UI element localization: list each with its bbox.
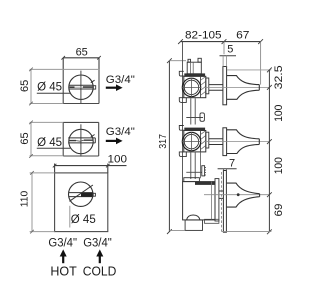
svg-text:G3/4": G3/4" xyxy=(106,126,135,138)
svg-text:G3/4": G3/4" xyxy=(106,74,135,86)
inlet label G3/4 (hot) xyxy=(48,238,77,250)
handle H2 (horn) xyxy=(204,130,270,154)
pipe between B2-B3 xyxy=(186,152,206,179)
svg-text:100: 100 xyxy=(108,154,128,166)
label Ø45 (unit1) with leader xyxy=(37,82,71,94)
svg-text:G3/4": G3/4" xyxy=(83,238,112,250)
svg-text:67: 67 xyxy=(236,30,249,42)
back rail xyxy=(182,42,184,182)
label Ø45 (unit3) with leader xyxy=(70,206,96,228)
handle H1 (horn) xyxy=(87,76,269,100)
label Ø45 (unit2) with leader xyxy=(37,137,71,149)
svg-text:HOT: HOT xyxy=(50,263,76,278)
valve body B2 xyxy=(179,126,223,157)
pipe between B1-B2 xyxy=(186,98,204,124)
svg-text:G3/4": G3/4" xyxy=(48,238,77,250)
dim 65 left (unit1 height) xyxy=(19,68,63,106)
svg-text:Ø 45: Ø 45 xyxy=(37,82,62,94)
svg-text:69: 69 xyxy=(273,204,285,217)
wall plate (unit 2) xyxy=(223,128,227,156)
dim 82-105 / 67 top xyxy=(178,30,263,85)
svg-text:82-105: 82-105 xyxy=(185,30,222,42)
svg-text:Ø 45: Ø 45 xyxy=(71,214,96,226)
svg-text:Ø 45: Ø 45 xyxy=(37,137,62,149)
svg-text:100: 100 xyxy=(273,157,285,174)
svg-text:317: 317 xyxy=(157,134,169,149)
dim 5 (plate thickness) xyxy=(220,44,237,56)
svg-text:100: 100 xyxy=(273,105,285,122)
dim chain right (32.5/100/100/69) xyxy=(222,65,286,234)
svg-text:110: 110 xyxy=(19,191,31,208)
wall plate (unit 3) xyxy=(222,171,227,233)
knob K1 circle xyxy=(69,71,96,104)
inlet label G3/4 (cold) xyxy=(83,238,112,250)
valve body B1 xyxy=(179,58,223,102)
arrow up (hot inlet) xyxy=(60,249,67,263)
svg-text:5: 5 xyxy=(227,44,233,56)
outlet label G3/4 (unit1) xyxy=(106,74,135,91)
svg-text:65: 65 xyxy=(19,132,31,144)
dim 7 (bottom plate) xyxy=(218,158,237,171)
thermostat body B3 xyxy=(169,178,223,231)
knob K3 circle (thermostat) xyxy=(69,182,96,206)
svg-text:COLD: COLD xyxy=(83,263,117,278)
plate square P2 (65x65) xyxy=(63,122,98,156)
arrow up (cold inlet) xyxy=(96,249,103,263)
handle H3 (thermostat horn) xyxy=(204,183,270,207)
dim 110 left (unit3 height) xyxy=(19,171,55,233)
dim 317 left (overall height) xyxy=(157,58,186,234)
svg-text:7: 7 xyxy=(229,158,235,170)
wall plate (unit 1) xyxy=(223,56,271,105)
knob K2 circle xyxy=(68,124,95,156)
plate square P3 (100x110) xyxy=(55,173,108,232)
svg-text:65: 65 xyxy=(19,80,31,92)
outlet label G3/4 (unit2) xyxy=(106,126,135,144)
dim 65 left (unit2 height) xyxy=(19,121,63,158)
dim 100 top (unit3 width) xyxy=(53,154,127,173)
svg-text:65: 65 xyxy=(76,46,88,58)
plate square P1 (65x65) xyxy=(63,69,99,103)
dim 65 top (unit1 width) xyxy=(61,46,100,69)
svg-text:32.5: 32.5 xyxy=(273,65,285,89)
